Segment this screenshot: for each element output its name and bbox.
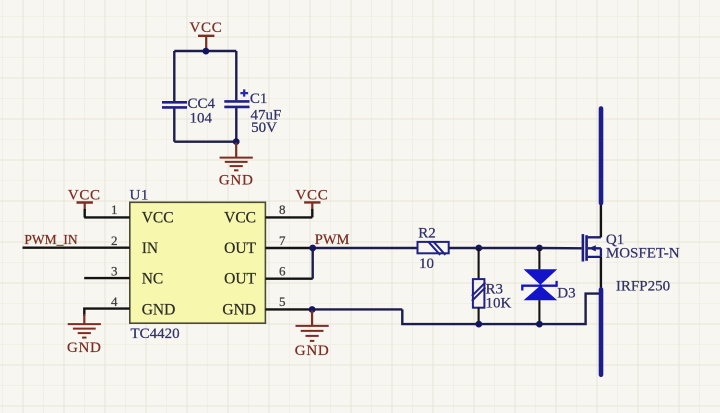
R3 top lead: [478, 248, 480, 279]
D3 top lead: [538, 248, 540, 269]
wire bottom of caps: [174, 140, 236, 142]
svg-text:C1: C1: [250, 91, 268, 107]
junction R3 bottom / rail: [475, 321, 482, 328]
wire R2 to R3 node: [449, 247, 479, 249]
svg-text:OUT: OUT: [224, 240, 256, 257]
svg-text:104: 104: [190, 111, 213, 127]
svg-text:6: 6: [279, 264, 286, 279]
pin 6 lead: [265, 278, 312, 280]
wire bottom rail to MOSFET source: [402, 294, 601, 325]
wire pin5 to bottom rail: [312, 308, 402, 310]
TVS diode D3 (bidirectional): [522, 269, 557, 300]
svg-text:IRFP250: IRFP250: [616, 278, 670, 294]
wire R3 node to D3 node: [479, 247, 540, 249]
svg-text:GND: GND: [295, 343, 330, 359]
capacitor CC4: [162, 102, 187, 107]
junction pin7/pin6: [309, 245, 316, 252]
C1 plus polarity mark: [240, 89, 248, 96]
pin 3 lead (NC): [84, 277, 130, 279]
pin 4 lead to GND: [84, 309, 130, 316]
wire C1 bottom lead: [235, 108, 237, 142]
svg-text:4: 4: [111, 294, 118, 309]
svg-text:10: 10: [419, 256, 434, 272]
resistor R3: [472, 279, 486, 308]
svg-text:GND: GND: [222, 301, 256, 318]
svg-text:1: 1: [111, 202, 118, 217]
svg-text:GND: GND: [67, 340, 102, 356]
Q1 source pin: [600, 257, 602, 291]
svg-text:VCC: VCC: [190, 20, 223, 36]
svg-text:OUT: OUT: [224, 271, 256, 288]
wire VCC to pin8: [311, 209, 313, 217]
svg-text:2: 2: [111, 233, 118, 248]
svg-text:VCC: VCC: [142, 209, 174, 226]
pin 5 lead: [265, 308, 312, 310]
svg-text:7: 7: [279, 233, 286, 248]
svg-text:U1: U1: [130, 187, 149, 203]
svg-text:TC4420: TC4420: [131, 326, 180, 342]
svg-text:VCC: VCC: [224, 209, 256, 226]
power GND (top): [219, 143, 254, 189]
op-amp driver U1 TC4420 body: [130, 202, 266, 323]
wire thick source bus: [599, 290, 604, 375]
power VCC (right, pin8): [296, 188, 329, 210]
wire D3 node to gate: [539, 247, 581, 250]
svg-text:50V: 50V: [251, 120, 277, 136]
svg-text:PWM_IN: PWM_IN: [24, 232, 77, 247]
svg-text:D3: D3: [557, 286, 575, 302]
svg-text:GND: GND: [219, 172, 254, 188]
resistor R2: [418, 242, 449, 255]
pin 2 lead / PWM_IN wire: [23, 246, 130, 248]
junction top rail / VCC: [203, 48, 210, 55]
power VCC (left, pin1): [68, 188, 101, 210]
wire top rail: [174, 50, 236, 52]
junction R3 top: [475, 245, 482, 252]
R3 bottom lead: [478, 308, 480, 324]
svg-text:VCC: VCC: [296, 188, 329, 204]
wire PWM to R2: [313, 247, 418, 249]
pin 8 lead: [265, 216, 312, 218]
Q1 drain pin: [600, 203, 602, 237]
svg-text:IN: IN: [142, 240, 158, 257]
svg-text:5: 5: [279, 294, 286, 309]
junction caps / GND: [233, 138, 240, 145]
svg-text:8: 8: [279, 202, 286, 217]
wire VCC to pin1: [83, 209, 85, 217]
wire thick drain bus: [599, 109, 604, 204]
D3 bottom lead: [538, 300, 540, 324]
pin 7 lead: [265, 247, 312, 249]
svg-text:NC: NC: [142, 271, 164, 288]
capacitor C1 (polarized): [224, 101, 249, 107]
wire pin6 up to pin7 net: [312, 248, 314, 279]
junction D3 top: [536, 245, 543, 252]
power VCC (top, caps): [190, 20, 223, 51]
wire CC4 bottom lead: [173, 109, 175, 142]
pin 1 lead: [84, 216, 130, 218]
junction D3 bottom / rail: [536, 321, 543, 328]
svg-text:10K: 10K: [486, 295, 512, 311]
svg-text:GND: GND: [142, 301, 176, 318]
power GND (left, pin4): [67, 314, 102, 356]
svg-text:VCC: VCC: [68, 188, 101, 204]
power GND (mid, pin5): [295, 310, 330, 359]
wire C1 top lead: [235, 51, 237, 100]
transistor Q1 MOSFET-N: [583, 234, 601, 261]
svg-text:R2: R2: [418, 225, 436, 241]
junction pin5 / GND: [309, 306, 316, 313]
svg-text:MOSFET-N: MOSFET-N: [606, 246, 680, 262]
svg-text:PWM: PWM: [315, 232, 350, 248]
wire CC4 top lead: [173, 51, 175, 101]
svg-text:3: 3: [111, 264, 118, 279]
